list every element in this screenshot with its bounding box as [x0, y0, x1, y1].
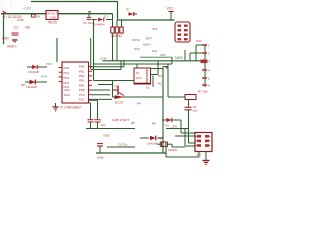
wire y61.5	[140, 56, 172, 58]
svg-text:+12V: +12V	[23, 7, 32, 11]
svg-text:D1: D1	[104, 15, 108, 19]
wire y57.7 long	[103, 60, 204, 62]
svg-text:78L05: 78L05	[48, 20, 58, 24]
wire drop to R1 top	[112, 14, 114, 27]
power VCC symbol	[169, 11, 174, 13]
svg-text:GND: GND	[97, 156, 105, 160]
crystal Q1	[162, 142, 167, 147]
vertical x168	[167, 64, 169, 97]
ground under IC	[55, 103, 57, 107]
svg-text:PC0: PC0	[79, 93, 85, 97]
svg-text:MISO: MISO	[175, 56, 184, 60]
wire v x181	[180, 120, 182, 133]
svg-text:K1: K1	[146, 86, 150, 90]
wire R1 down	[112, 33, 114, 61]
svg-text:BC337: BC337	[115, 100, 124, 104]
svg-text:PD1: PD1	[64, 71, 70, 75]
wire R2 down	[116, 33, 118, 61]
top right connector SV2	[175, 22, 190, 42]
wire y20 to connector	[117, 19, 175, 21]
bottom rail y153	[96, 152, 166, 154]
svg-text:GND: GND	[17, 18, 25, 22]
wire C5 down	[188, 110, 190, 143]
svg-text:MISO: MISO	[143, 43, 151, 47]
IC left pin stubs	[59, 68, 63, 82]
svg-text:GND: GND	[103, 134, 111, 138]
svg-text:16MHz: 16MHz	[168, 148, 178, 152]
svg-text:C1: C1	[14, 26, 18, 30]
wire right column v x205	[204, 44, 206, 87]
capacitor C4	[95, 119, 101, 121]
svg-text:1N4004: 1N4004	[94, 22, 105, 26]
svg-text:22p: 22p	[101, 123, 106, 127]
svg-text:NC: NC	[158, 82, 162, 86]
svg-text:RST: RST	[146, 36, 152, 40]
svg-text:D3: D3	[165, 123, 169, 127]
svg-text:10k: 10k	[152, 49, 157, 53]
relay K1	[134, 68, 151, 84]
wire v x98	[98, 84, 113, 86]
wire stub x89	[88, 14, 90, 18]
IC right wires	[91, 66, 124, 68]
connector pin1 tick	[3, 11, 7, 13]
svg-text:D7: D7	[126, 8, 130, 12]
svg-text:JP3: JP3	[152, 27, 158, 31]
wire v x185	[184, 129, 186, 147]
capacitor C5	[185, 106, 192, 108]
svg-text:R8: R8	[26, 26, 30, 30]
svg-text:GND 2TEXT: GND 2TEXT	[112, 118, 129, 122]
connector box SV1 bottom right	[195, 133, 212, 152]
svg-text:PB0: PB0	[79, 65, 85, 69]
resistor R7	[185, 95, 196, 100]
relay right pins	[151, 68, 164, 70]
svg-text:G5V: G5V	[136, 76, 142, 80]
wire ic bottom right	[89, 99, 98, 101]
resistor R1	[111, 27, 114, 33]
svg-text:PD4: PD4	[64, 85, 70, 89]
capacitor C3	[88, 119, 94, 121]
wire y64	[94, 63, 173, 65]
svg-text:4: 4	[208, 69, 210, 73]
svg-text:D6: D6	[36, 15, 40, 19]
IC right pin stubs	[89, 67, 93, 100]
wire v x88.5	[90, 38, 92, 70]
regulator IC3 78L05	[46, 11, 58, 20]
bottom right mesh into box	[181, 132, 195, 134]
svg-text:1N4148: 1N4148	[26, 85, 37, 89]
svg-text:R6: R6	[152, 121, 156, 125]
wire left drop x3.5	[3, 14, 5, 44]
wire v x172	[171, 57, 173, 64]
gnd rail y128.5	[86, 128, 135, 130]
wire v x190 + stub pin	[189, 53, 191, 61]
svg-text:IC1 MEGA8-P: IC1 MEGA8-P	[60, 106, 82, 110]
svg-text:GND: GND	[100, 56, 108, 60]
svg-text:1: 1	[1, 1, 3, 5]
svg-text:PB2: PB2	[79, 74, 85, 78]
wire diode branch y19.5	[92, 19, 97, 21]
svg-text:C2 10u: C2 10u	[83, 21, 93, 25]
svg-text:JP2: JP2	[172, 125, 177, 129]
ground under C1	[12, 39, 18, 41]
wire R7 down to C5	[188, 100, 190, 108]
svg-text:SV2: SV2	[196, 39, 202, 43]
svg-text:MOSI: MOSI	[132, 38, 140, 42]
svg-text:10u: 10u	[193, 109, 198, 113]
svg-text:GND 1: GND 1	[7, 44, 17, 48]
diode D2	[140, 137, 149, 139]
svg-text:NO: NO	[158, 74, 163, 78]
svg-text:C6 22p: C6 22p	[118, 143, 128, 147]
svg-text:AGN: AGN	[64, 93, 70, 97]
diode D3	[162, 119, 181, 121]
diode D1 horizontal	[98, 18, 104, 22]
wire y147 short	[107, 146, 135, 148]
IC pin name text right col	[64, 65, 86, 102]
capacitor C2 cluster	[87, 17, 92, 19]
svg-text:R5: R5	[131, 121, 135, 125]
pin 2	[202, 52, 207, 54]
wire y97 to x163	[113, 96, 164, 98]
wire relay feed y80.5	[94, 80, 135, 82]
svg-text:K1: K1	[136, 71, 140, 75]
svg-text:PD0: PD0	[64, 66, 70, 70]
svg-text:1: 1	[208, 44, 210, 48]
resistor R2	[115, 27, 118, 33]
wire VCC stub	[170, 12, 172, 20]
wire top rail +12V	[31, 1, 118, 3]
svg-text:R7 10k: R7 10k	[198, 89, 208, 93]
diode D6	[32, 14, 36, 17]
svg-text:2k2 2k2: 2k2 2k2	[111, 34, 122, 38]
svg-text:PB5: PB5	[79, 88, 85, 92]
svg-text:2: 2	[208, 52, 210, 56]
svg-text:100n: 100n	[2, 37, 9, 41]
svg-text:2: 2	[10, 1, 12, 5]
svg-text:1N4148: 1N4148	[28, 70, 39, 74]
svg-text:R4: R4	[137, 101, 141, 105]
svg-text:PD6: PD6	[41, 74, 47, 78]
svg-text:PD5: PD5	[46, 62, 52, 66]
svg-text:D5: D5	[21, 83, 25, 87]
middle net label cluster	[132, 38, 151, 51]
wire y97 to R7	[168, 96, 185, 98]
pin 1	[202, 44, 207, 46]
svg-text:SCK: SCK	[134, 47, 140, 51]
svg-text:1N4148: 1N4148	[147, 141, 158, 145]
wire box down gnd	[198, 152, 200, 158]
wire v x112.5 lower	[112, 81, 114, 98]
pin 4	[202, 69, 207, 71]
wire v x196	[195, 45, 197, 61]
pin 6	[202, 84, 207, 86]
svg-text:PC1: PC1	[79, 98, 85, 102]
svg-text:3: 3	[209, 60, 211, 64]
svg-text:6: 6	[208, 84, 210, 88]
svg-text:SCK: SCK	[160, 53, 166, 57]
diode D4 left	[27, 66, 47, 68]
wire IC vcc drop x56	[56, 38, 58, 62]
svg-text:VCC: VCC	[167, 7, 175, 11]
svg-text:PB3: PB3	[79, 79, 85, 83]
svg-text:GND: GND	[50, 16, 58, 20]
wire v x94.5	[93, 20, 95, 81]
svg-text:PB4: PB4	[79, 83, 85, 87]
wire main rail y13.7	[1, 13, 46, 15]
svg-text:5: 5	[208, 77, 210, 81]
resistor R3	[120, 27, 123, 33]
diode D5 left	[25, 81, 47, 83]
svg-text:PD2: PD2	[64, 76, 70, 80]
jumper SJ1	[97, 143, 103, 145]
pin 3	[201, 60, 208, 64]
transistor T1	[113, 89, 118, 91]
pin 5	[202, 77, 207, 79]
wire y128.5 right	[166, 128, 189, 130]
svg-text:PB1: PB1	[79, 69, 85, 73]
IC1 box	[62, 62, 89, 103]
long vertical x163	[162, 67, 164, 154]
ground bottom right	[205, 152, 207, 161]
wire elbow down x117.5	[117, 2, 119, 21]
svg-text:Q1: Q1	[159, 136, 163, 140]
relay top pin	[136, 64, 138, 68]
svg-text:T1: T1	[114, 84, 118, 88]
